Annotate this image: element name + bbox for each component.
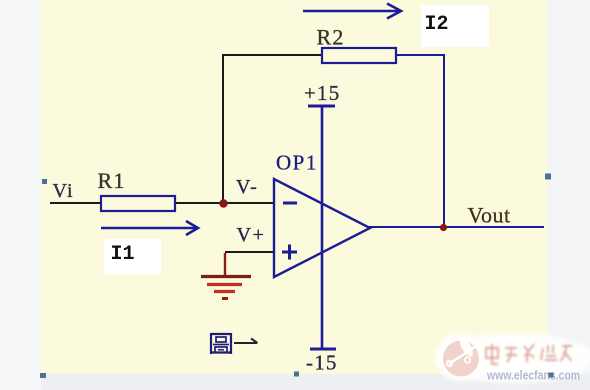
svg-text:OP1: OP1 (276, 151, 318, 175)
svg-text:V+: V+ (237, 224, 266, 246)
wire: feedback left vertical (222, 55, 224, 203)
svg-text:I2: I2 (425, 13, 449, 36)
svg-text:www.elecfans.com: www.elecfans.com (486, 368, 580, 383)
wire: feedback right vertical to output node (443, 55, 445, 227)
wire: power supply vertical through op-amp (321, 106, 324, 348)
+15 supply rail bar (308, 105, 335, 108)
figure caption glyph (tu - figure) (211, 333, 231, 354)
ground (201, 253, 251, 299)
svg-text:Vi: Vi (53, 180, 74, 202)
node Vout junction dot (440, 224, 447, 231)
wire: feedback top horizontal to R2 (222, 54, 322, 56)
svg-text:R2: R2 (317, 25, 345, 50)
wire: V+ input horizontal (225, 251, 274, 253)
watermark logo circle (443, 338, 480, 377)
editor canvas right margin (547, 0, 590, 390)
wire: R1 to inverting input node and op-amp (175, 202, 274, 204)
editor canvas bottom margin (41, 374, 590, 390)
selection handle bottom-right (549, 373, 554, 378)
wire: op-amp output to Vout (369, 226, 544, 228)
label box I2 background (421, 5, 489, 47)
selection handle mid-right (545, 174, 551, 180)
op-amp non-inverting pin plus sign (282, 245, 297, 260)
op-amp U1 triangle (274, 179, 370, 277)
watermark brand glyphs emboss (485, 343, 571, 363)
watermark glow (434, 333, 590, 383)
svg-text:-15: -15 (306, 351, 338, 375)
label box I1 background (104, 239, 161, 274)
svg-text:Vout: Vout (468, 203, 511, 228)
selection handle bottom-left (40, 373, 46, 378)
figure caption dash (yi - one) with arrow tip (234, 339, 258, 344)
current arrow I1 (101, 221, 198, 235)
svg-text:R1: R1 (98, 168, 126, 193)
selection handle bottom-middle (294, 372, 299, 377)
svg-text:V-: V- (236, 176, 258, 198)
-15 supply rail bar (310, 348, 336, 351)
op-amp inverting pin minus sign (283, 202, 297, 205)
watermark brand glyphs (486, 344, 572, 364)
resistor R1 (101, 196, 175, 211)
wire: Vi input to R1 (50, 202, 101, 204)
selection handle mid-left (42, 179, 47, 184)
resistor R2 (322, 48, 396, 63)
svg-text:+15: +15 (304, 81, 340, 105)
wire: R2 to right vertical (396, 54, 445, 56)
node V- junction dot (219, 199, 227, 207)
svg-text:I1: I1 (111, 243, 135, 266)
current arrow I2 (303, 4, 401, 19)
